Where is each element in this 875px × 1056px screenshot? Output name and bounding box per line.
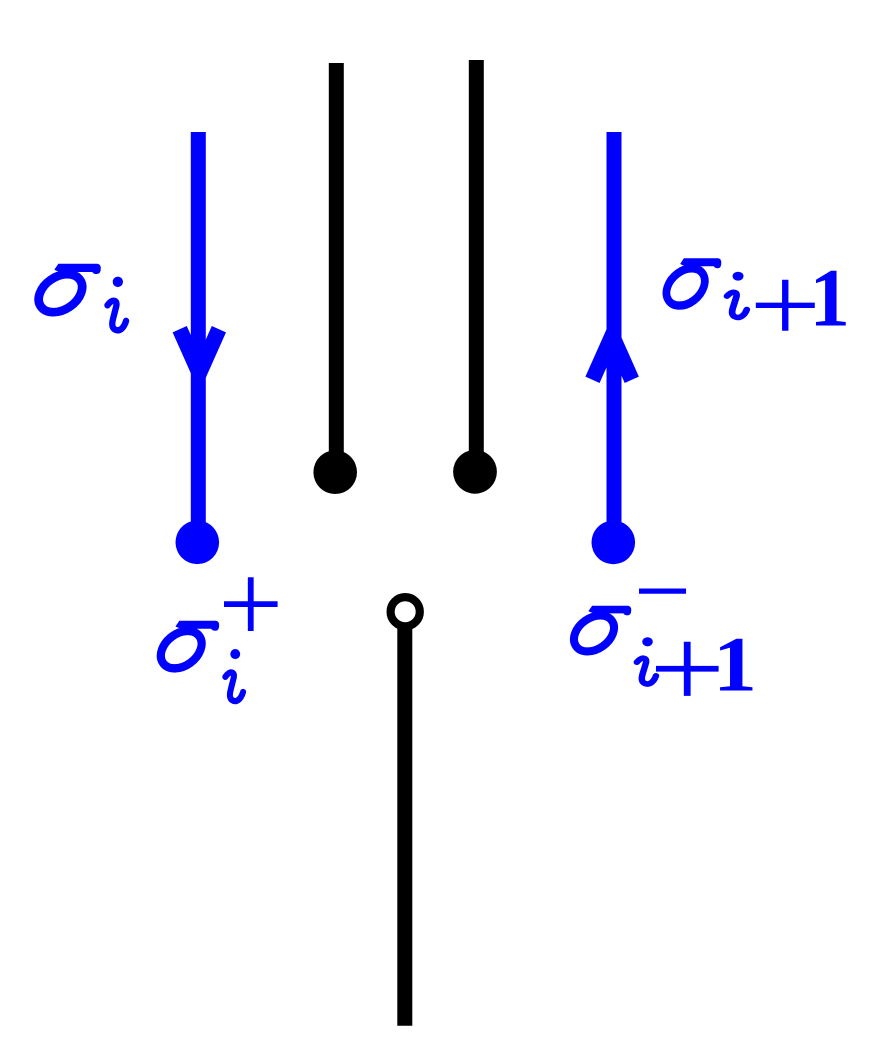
node: open circle endpoint (white filled, black ring): [391, 597, 420, 626]
node: endpoint dot strand 1 (black filled): [313, 450, 357, 494]
node: endpoint dot strand 2 (black filled): [453, 450, 497, 494]
svg-text:1: 1: [810, 252, 850, 344]
node: endpoint dot of sigma_i+1 string (blue filled): [592, 521, 636, 565]
label sigma_i: [31, 264, 126, 331]
label sigma_i+1: [660, 245, 850, 366]
wire: spectator strand 1 (black): [329, 63, 344, 465]
label sigma_i+1^-: [567, 533, 757, 733]
svg-text:+: +: [218, 540, 283, 668]
wire: string line sigma_i+1 (blue, arrow up): [607, 132, 622, 535]
label sigma_i^+: [154, 540, 283, 701]
svg-text:1: 1: [713, 622, 757, 708]
node: endpoint dot of sigma_i string (blue filled): [176, 521, 220, 565]
arrowhead up on sigma_i+1 line: [593, 336, 632, 380]
wire: bottom strand (black): [397, 612, 412, 1026]
wire: spectator strand 2 (black): [469, 60, 484, 465]
wire: string line sigma_i (blue, arrow down): [191, 132, 206, 535]
arrowhead down on sigma_i line: [180, 329, 219, 373]
